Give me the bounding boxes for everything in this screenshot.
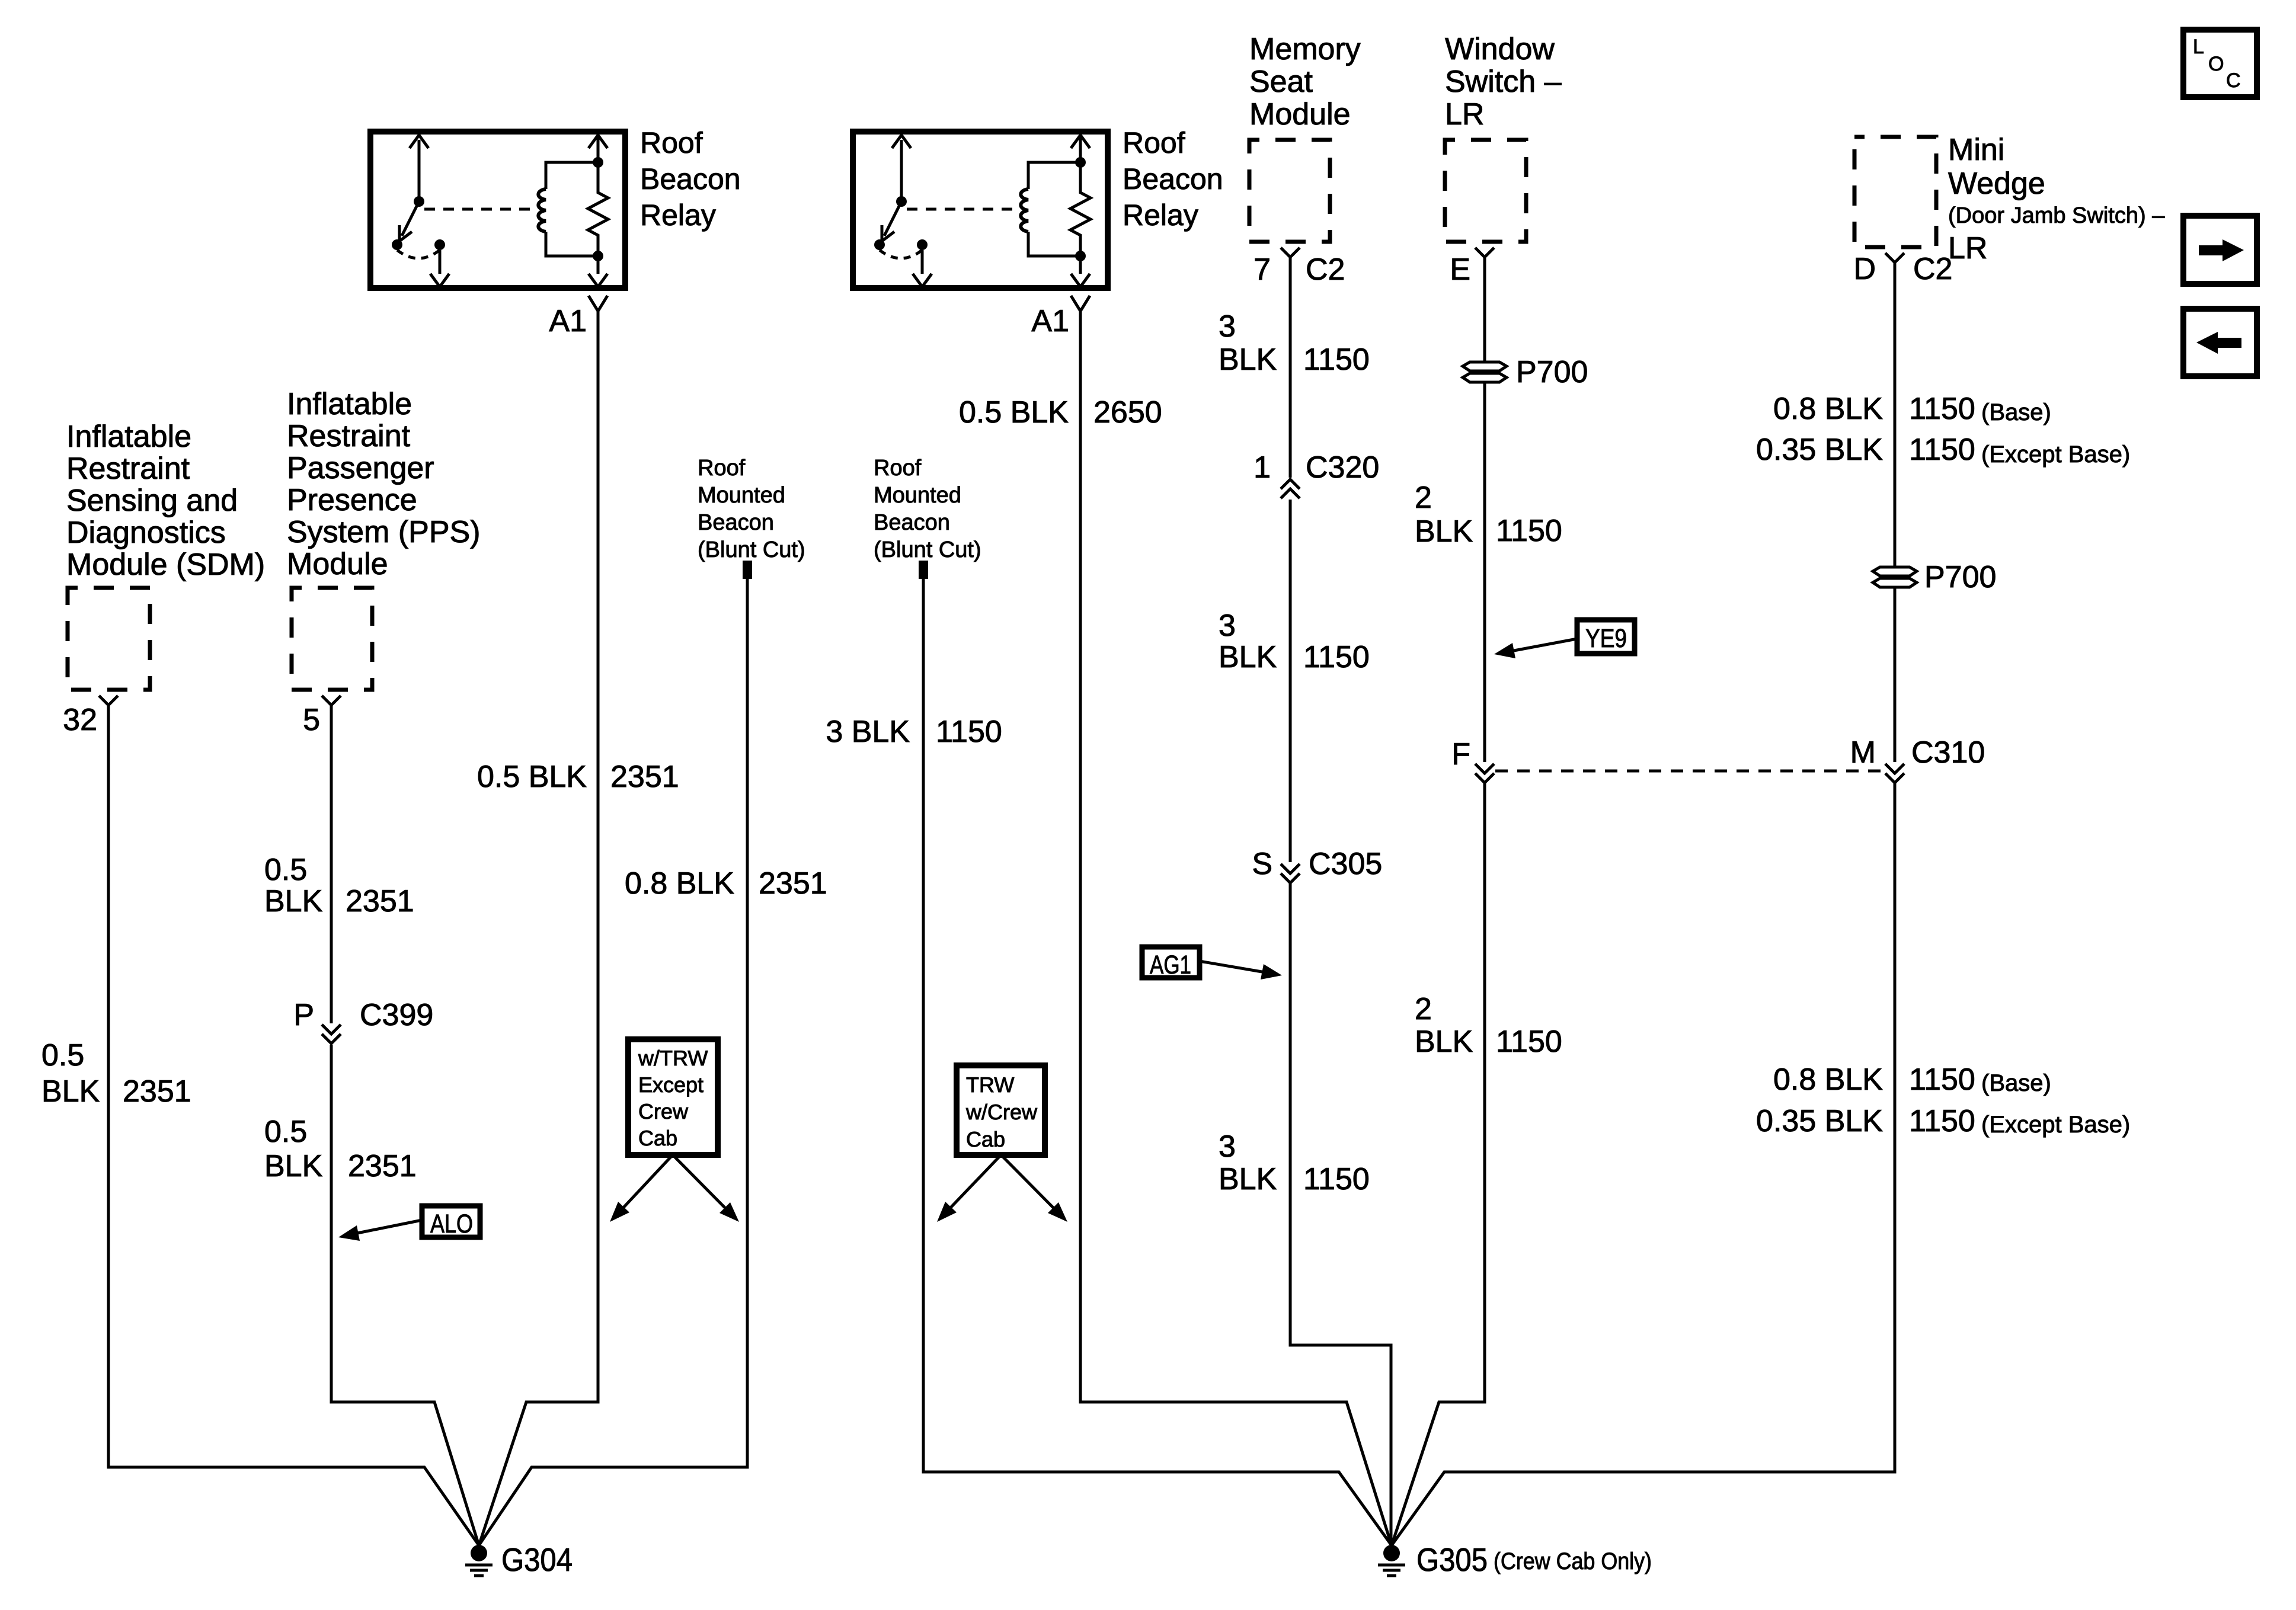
- relay: Roof Beacon Relay (box): [370, 132, 625, 288]
- svg-text:System (PPS): System (PPS): [287, 515, 481, 549]
- wire: roof mounted beacon blunt cut 2 to G305 (3 BLK 1150): [923, 579, 1392, 1545]
- svg-text:Roof: Roof: [874, 456, 922, 481]
- svg-text:Passenger: Passenger: [287, 451, 434, 485]
- svg-text:Except: Except: [638, 1073, 703, 1097]
- relay coil-switch dashed link: [424, 208, 532, 211]
- svg-text:Roof: Roof: [1123, 126, 1185, 159]
- svg-text:ALO: ALO: [430, 1209, 473, 1238]
- svg-text:Window: Window: [1445, 32, 1555, 66]
- reference tag YE9: [1577, 620, 1635, 654]
- relay switch movable arm: [402, 201, 419, 236]
- svg-text:P700: P700: [1924, 560, 1996, 594]
- svg-text:C310: C310: [1911, 735, 1985, 770]
- module Mini Wedge (dashed box): [1854, 137, 1936, 247]
- YE9 arrow: [1511, 639, 1577, 651]
- svg-text:0.5: 0.5: [264, 1115, 307, 1149]
- svg-text:(Blunt Cut): (Blunt Cut): [874, 537, 981, 562]
- svg-text:BLK: BLK: [1415, 514, 1473, 549]
- svg-text:(Door Jamb Switch) –: (Door Jamb Switch) –: [1948, 203, 2165, 228]
- svg-text:0.5 BLK: 0.5 BLK: [959, 395, 1069, 430]
- svg-text:Cab: Cab: [638, 1126, 677, 1150]
- ALO arrow: [354, 1220, 422, 1234]
- svg-text:D: D: [1853, 252, 1876, 286]
- relay output to pin A1: [597, 261, 600, 274]
- svg-text:32: 32: [63, 703, 97, 737]
- svg-text:Relay: Relay: [1123, 199, 1198, 232]
- pin 7 connector C2: [1281, 248, 1300, 257]
- svg-text:Restraint: Restraint: [66, 452, 190, 486]
- svg-text:Diagnostics: Diagnostics: [66, 516, 226, 550]
- svg-text:G304: G304: [501, 1541, 573, 1578]
- wire: mini wedge pin D to P700 (0.8/0.35 BLK 1150): [1894, 263, 1897, 569]
- reference tag ALO: [422, 1206, 480, 1237]
- svg-text:1150: 1150: [1496, 1025, 1562, 1059]
- svg-text:Module (SDM): Module (SDM): [66, 548, 265, 582]
- svg-text:1150: 1150: [1909, 1062, 1975, 1097]
- svg-text:5: 5: [303, 703, 320, 737]
- svg-text:M: M: [1850, 735, 1876, 770]
- svg-text:Module: Module: [287, 547, 388, 581]
- svg-text:0.8 BLK: 0.8 BLK: [625, 866, 734, 901]
- relay switch arm (common): [418, 140, 421, 201]
- AG1 arrow: [1200, 961, 1265, 972]
- svg-text:Roof: Roof: [698, 456, 746, 481]
- svg-text:G305: G305: [1416, 1541, 1488, 1578]
- svg-text:0.5: 0.5: [264, 853, 307, 887]
- blunt cut: Roof Mounted Beacon 2: [919, 561, 928, 579]
- svg-text:3: 3: [1219, 1129, 1236, 1164]
- svg-text:Restraint: Restraint: [287, 419, 411, 453]
- relay coil: [546, 162, 598, 189]
- module SDM (dashed box): [68, 588, 150, 690]
- svg-text:TRW: TRW: [966, 1073, 1014, 1097]
- TRW arrow left: [948, 1155, 1001, 1210]
- svg-text:7: 7: [1253, 252, 1271, 287]
- svg-text:S: S: [1252, 847, 1272, 881]
- svg-text:w/Crew: w/Crew: [965, 1100, 1038, 1124]
- svg-text:L: L: [2193, 36, 2204, 58]
- relay node top: [1075, 157, 1086, 168]
- relay node bottom: [593, 251, 603, 261]
- svg-text:2650: 2650: [1093, 395, 1162, 430]
- svg-text:(Base): (Base): [1981, 399, 2051, 425]
- pin E connector: [1475, 248, 1494, 257]
- PPS pin connector: [322, 696, 341, 705]
- wire: C399 to G304 (0.5 BLK 2351): [331, 1045, 479, 1545]
- svg-text:w/TRW: w/TRW: [638, 1046, 708, 1070]
- svg-text:P: P: [293, 998, 314, 1032]
- svg-text:Module: Module: [1249, 97, 1351, 132]
- svg-text:(Crew Cab Only): (Crew Cab Only): [1494, 1548, 1652, 1574]
- relay node top: [593, 157, 603, 168]
- relay coil: [1028, 162, 1080, 189]
- svg-text:A1: A1: [1031, 304, 1069, 338]
- SDM pin connector: [99, 696, 118, 705]
- wire: M C310 to G305 (0.8/0.35 BLK 1150): [1392, 783, 1895, 1545]
- svg-text:BLK: BLK: [41, 1074, 100, 1109]
- module Memory Seat Module (dashed box): [1249, 140, 1330, 242]
- legend right-arrow box: [2183, 216, 2257, 284]
- relay switch arm (common): [900, 140, 903, 201]
- svg-text:1150: 1150: [1909, 392, 1975, 426]
- reference tag AG1: [1142, 947, 1200, 978]
- module PPS (dashed box): [292, 588, 372, 690]
- w/TRW arrow left: [621, 1155, 673, 1210]
- relay switch movable arm: [884, 201, 901, 236]
- wire: C320 to C305 (3 BLK 1150): [1289, 500, 1292, 862]
- w/TRW arrow right: [673, 1155, 727, 1210]
- svg-text:1150: 1150: [1909, 433, 1975, 467]
- option box: TRW w/Crew Cab: [957, 1065, 1045, 1155]
- svg-text:F: F: [1451, 737, 1470, 772]
- connector C310 cavity M: [1885, 764, 1904, 783]
- ground G305: [1383, 1545, 1400, 1561]
- svg-text:C399: C399: [360, 998, 433, 1032]
- svg-text:Cab: Cab: [966, 1127, 1005, 1151]
- svg-text:Crew: Crew: [638, 1099, 689, 1124]
- pass-through grommet P700 (left): [1463, 362, 1507, 371]
- svg-text:Relay: Relay: [640, 199, 716, 232]
- relay contact dashed arc: [880, 250, 922, 258]
- svg-text:(Base): (Base): [1981, 1070, 2051, 1096]
- ground G304: [471, 1545, 487, 1561]
- relay contact (NO): [434, 239, 445, 250]
- relay contact (NO): [917, 239, 928, 250]
- svg-text:2351: 2351: [610, 760, 679, 794]
- svg-text:BLK: BLK: [1219, 640, 1277, 674]
- svg-text:P700: P700: [1516, 355, 1588, 389]
- svg-text:YE9: YE9: [1585, 624, 1627, 653]
- svg-text:2: 2: [1415, 481, 1432, 515]
- relay output arm: [439, 250, 442, 274]
- svg-text:1: 1: [1253, 450, 1271, 485]
- relay resistor: [1070, 137, 1091, 256]
- svg-text:Switch –: Switch –: [1445, 65, 1562, 99]
- svg-text:Beacon: Beacon: [874, 510, 950, 535]
- wire: relay2 A1 to G305 (0.5 BLK 2650): [1080, 311, 1392, 1545]
- svg-text:BLK: BLK: [1219, 343, 1277, 377]
- svg-text:Beacon: Beacon: [698, 510, 774, 535]
- pin D connector C2: [1885, 253, 1904, 263]
- wire: window switch pin E to P700 (2 BLK 1150): [1483, 257, 1486, 364]
- svg-text:Wedge: Wedge: [1948, 167, 2045, 201]
- option box: w/TRW Except Crew Cab: [628, 1039, 718, 1155]
- svg-text:Beacon: Beacon: [640, 162, 741, 196]
- svg-text:Mounted: Mounted: [698, 483, 785, 508]
- svg-text:BLK: BLK: [1219, 1162, 1277, 1196]
- wire: relay1 A1 to G304 (0.5 BLK 2351): [479, 311, 598, 1545]
- wire: C305 to G305 (3 BLK 1150): [1290, 884, 1391, 1545]
- svg-text:0.8 BLK: 0.8 BLK: [1773, 1062, 1883, 1097]
- relay: Roof Beacon Relay (box): [853, 132, 1108, 288]
- TRW arrow right: [1001, 1155, 1056, 1210]
- svg-text:1150: 1150: [936, 715, 1002, 749]
- wire: PPS pin 5 to C399: [330, 705, 333, 1023]
- svg-text:Memory: Memory: [1249, 32, 1361, 66]
- svg-text:C: C: [2226, 69, 2241, 92]
- svg-text:C320: C320: [1306, 450, 1379, 485]
- svg-text:LR: LR: [1445, 97, 1484, 132]
- svg-text:Mini: Mini: [1948, 133, 2004, 167]
- relay output arm: [921, 250, 924, 274]
- connector C305: [1281, 864, 1300, 883]
- wire: dashed link F to M (C310): [1495, 770, 1884, 773]
- blunt cut: Roof Mounted Beacon 1: [743, 561, 752, 579]
- connector C310 cavity F: [1475, 764, 1494, 783]
- svg-text:3: 3: [1219, 309, 1236, 344]
- svg-text:BLK: BLK: [264, 1149, 323, 1183]
- svg-text:Seat: Seat: [1249, 65, 1313, 99]
- connector C320: [1281, 479, 1300, 498]
- relay coil-switch dashed link: [907, 208, 1015, 211]
- svg-text:3 BLK: 3 BLK: [826, 715, 910, 749]
- legend LOC box: [2183, 30, 2257, 97]
- svg-text:C305: C305: [1309, 847, 1382, 881]
- svg-text:Mounted: Mounted: [874, 483, 961, 508]
- svg-text:0.35 BLK: 0.35 BLK: [1756, 1104, 1883, 1138]
- wire: P700 to F C310 (2 BLK 1150): [1483, 382, 1486, 762]
- svg-text:LR: LR: [1948, 231, 1987, 265]
- svg-text:2351: 2351: [346, 884, 414, 918]
- svg-text:Beacon: Beacon: [1123, 162, 1223, 196]
- relay switch pivot: [896, 196, 907, 207]
- connector C399: [322, 1025, 341, 1044]
- wire: P700 to M C310 (0.8/0.35 BLK 1150): [1894, 587, 1897, 762]
- pin A1 connector: [1071, 296, 1090, 311]
- svg-text:2: 2: [1415, 992, 1432, 1026]
- svg-text:2351: 2351: [759, 866, 827, 901]
- svg-text:1150: 1150: [1303, 640, 1370, 674]
- svg-text:0.5: 0.5: [41, 1038, 84, 1073]
- relay contact (NC): [874, 239, 885, 250]
- svg-text:BLK: BLK: [264, 884, 323, 918]
- wire: SDM pin 32 to G304 (0.5 BLK 2351): [108, 705, 479, 1545]
- wire: roof mounted beacon blunt cut 1 to G304 (0.8 BLK 2351): [479, 579, 747, 1545]
- wire: memory seat pin 7 to C320 (3 BLK 1150): [1289, 257, 1292, 478]
- svg-text:3: 3: [1219, 609, 1236, 643]
- svg-text:Sensing and: Sensing and: [66, 484, 238, 518]
- svg-text:1150: 1150: [1496, 514, 1562, 548]
- svg-text:Roof: Roof: [640, 126, 703, 159]
- svg-text:E: E: [1450, 252, 1470, 287]
- svg-text:(Except Base): (Except Base): [1981, 1112, 2130, 1138]
- svg-text:2351: 2351: [123, 1074, 191, 1109]
- svg-text:(Blunt Cut): (Blunt Cut): [698, 537, 805, 562]
- pass-through grommet P700 (right): [1873, 567, 1917, 576]
- relay switch pivot: [414, 196, 424, 207]
- svg-text:AG1: AG1: [1150, 950, 1191, 980]
- svg-text:1150: 1150: [1909, 1104, 1975, 1138]
- relay resistor: [588, 137, 608, 256]
- svg-text:Inflatable: Inflatable: [66, 420, 191, 454]
- svg-text:C2: C2: [1306, 252, 1345, 287]
- relay node bottom: [1075, 251, 1086, 261]
- svg-text:Inflatable: Inflatable: [287, 387, 412, 421]
- svg-text:O: O: [2208, 53, 2224, 75]
- svg-text:1150: 1150: [1303, 343, 1370, 377]
- relay contact dashed arc: [397, 250, 440, 258]
- relay contact (NC): [392, 239, 402, 250]
- svg-text:0.5 BLK: 0.5 BLK: [477, 760, 587, 794]
- legend left-arrow box: [2183, 309, 2257, 376]
- svg-text:C2: C2: [1913, 252, 1952, 286]
- wire: F C310 to G305 (2 BLK 1150): [1392, 783, 1485, 1545]
- svg-text:A1: A1: [549, 304, 587, 338]
- module Window Switch - LR (dashed box): [1445, 140, 1526, 242]
- svg-text:0.35 BLK: 0.35 BLK: [1756, 433, 1883, 467]
- svg-text:1150: 1150: [1303, 1162, 1370, 1196]
- svg-text:Presence: Presence: [287, 483, 417, 517]
- svg-text:0.8 BLK: 0.8 BLK: [1773, 392, 1883, 426]
- pin A1 connector: [589, 296, 607, 311]
- svg-text:(Except Base): (Except Base): [1981, 441, 2130, 468]
- svg-text:BLK: BLK: [1415, 1025, 1473, 1059]
- relay output to pin A1: [1079, 261, 1082, 274]
- svg-text:2351: 2351: [348, 1149, 417, 1183]
